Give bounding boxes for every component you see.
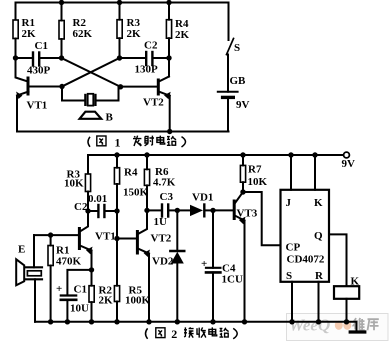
wire VT1 emitter down xyxy=(16,96,18,132)
wire S pin xyxy=(291,282,293,321)
node C3 left xyxy=(144,208,149,213)
svg-text:GB: GB xyxy=(230,75,247,87)
capacitor C3 xyxy=(147,209,161,211)
node VD1 right xyxy=(210,208,215,213)
svg-text:R: R xyxy=(315,270,324,282)
svg-text:430P: 430P xyxy=(27,65,51,77)
transistor VT2 xyxy=(157,80,160,94)
svg-text:R4: R4 xyxy=(124,167,138,179)
svg-text:C1: C1 xyxy=(74,284,87,296)
wire R7 column xyxy=(242,155,244,165)
svg-text:2K: 2K xyxy=(22,28,37,40)
IC CD4072 xyxy=(281,190,330,282)
svg-text:10K: 10K xyxy=(248,176,268,188)
svg-text:62K: 62K xyxy=(73,28,93,40)
wire ground rail fig2 xyxy=(35,321,357,323)
resistor R5 xyxy=(114,286,119,302)
wire node to VT3 base xyxy=(213,209,233,211)
node C2 right fig2 xyxy=(114,208,119,213)
svg-text:C2: C2 xyxy=(144,40,158,52)
node C1 right xyxy=(59,55,64,60)
svg-text:C2: C2 xyxy=(74,201,88,213)
svg-text:S: S xyxy=(234,42,240,54)
node VT2 emitter bottom xyxy=(167,129,172,134)
resistor R2 xyxy=(59,21,64,40)
diode VD1 xyxy=(177,209,190,211)
transistor VT1 fig2 xyxy=(78,229,81,249)
capacitor C4 xyxy=(212,210,214,267)
svg-text:VT2: VT2 xyxy=(151,233,172,245)
node R7 top rail xyxy=(240,152,245,157)
wire left rail fig1 xyxy=(15,3,17,21)
resistor R3 fig2 xyxy=(85,174,90,192)
transistor VT1 xyxy=(27,78,30,94)
wire 9V rail fig2 xyxy=(88,154,344,156)
resistor R6 xyxy=(144,169,149,185)
svg-text:2K: 2K xyxy=(175,29,190,41)
wire VT2 emitter down xyxy=(169,96,171,132)
node VD1 left xyxy=(175,208,180,213)
svg-text:VT1: VT1 xyxy=(95,231,116,243)
svg-text:K: K xyxy=(351,276,360,288)
wire cross coupling diagonal A xyxy=(62,58,121,87)
svg-text:9V: 9V xyxy=(342,158,356,170)
svg-text:VT3: VT3 xyxy=(237,208,258,220)
wire piezo bracket xyxy=(62,87,85,101)
battery GB xyxy=(218,91,238,93)
svg-text:VT2: VT2 xyxy=(143,97,164,109)
node VT1 emitter junction xyxy=(89,267,94,272)
ground rail junction dots xyxy=(48,319,53,324)
svg-text:0.01: 0.01 xyxy=(88,193,107,205)
svg-text:E: E xyxy=(18,244,25,256)
capacitor C1 xyxy=(16,57,33,59)
svg-text:2K: 2K xyxy=(127,28,142,40)
svg-text:4.7K: 4.7K xyxy=(153,177,176,189)
caption fig1 (图 1 发射电路) xyxy=(88,135,186,149)
microphone E xyxy=(16,259,24,285)
svg-text:130P: 130P xyxy=(135,64,159,76)
wire bottom rail fig1 xyxy=(17,131,229,133)
svg-text:CP: CP xyxy=(286,242,301,254)
relay K xyxy=(334,286,359,299)
capacitor C2 fig2 xyxy=(88,210,97,212)
node R4 top rail xyxy=(114,152,119,157)
wire top rail fig1 xyxy=(16,2,229,4)
node R1 top fig2 xyxy=(48,232,53,237)
svg-text:1: 1 xyxy=(115,135,121,149)
svg-text:+: + xyxy=(201,258,207,270)
wire CP connection xyxy=(243,192,281,245)
svg-text:VD2: VD2 xyxy=(152,256,174,268)
node VT1 base xyxy=(59,84,64,89)
svg-text:9V: 9V xyxy=(236,99,250,111)
svg-text:B: B xyxy=(106,112,114,124)
wire left rail down to VT1 collector xyxy=(16,58,28,82)
svg-text:10K: 10K xyxy=(64,178,84,190)
svg-text:100K: 100K xyxy=(125,295,151,307)
svg-text:C3: C3 xyxy=(160,191,174,203)
svg-text:2: 2 xyxy=(171,327,177,341)
node VT3 collector xyxy=(240,189,245,194)
svg-text:K: K xyxy=(314,197,323,209)
terminal 9V xyxy=(344,152,350,158)
svg-text:470K: 470K xyxy=(56,256,82,268)
node R2 top xyxy=(59,0,64,5)
wire to C1 xyxy=(67,270,91,295)
wire mic top xyxy=(33,235,35,267)
node VT2 base fig2 xyxy=(114,236,119,241)
resistor R4 xyxy=(166,20,171,39)
capacitor C1 fig2 xyxy=(61,294,76,296)
caption fig2 (图 2 接收电路) xyxy=(146,327,238,341)
node R3 top xyxy=(117,0,122,5)
wire cross coupling diagonal B xyxy=(62,58,120,87)
svg-text:R7: R7 xyxy=(248,164,262,176)
wire R4 column xyxy=(168,3,170,20)
svg-text:10U: 10U xyxy=(70,303,89,315)
node C2 left xyxy=(117,55,122,60)
node R6 top rail xyxy=(144,152,149,157)
svg-text:2K: 2K xyxy=(99,295,114,307)
watermark weeqoo xyxy=(287,314,389,341)
wire base to VT2 fig2 xyxy=(117,238,137,240)
wire Q output to relay xyxy=(329,234,347,286)
wire J pin xyxy=(290,155,292,190)
wire R3 column fig2 xyxy=(87,155,89,174)
switch S xyxy=(228,3,230,41)
resistor R2 fig2 xyxy=(89,286,94,302)
node C2 right R4 column xyxy=(166,55,171,60)
node C2 left fig2 xyxy=(85,208,90,213)
wire R4 column fig2 xyxy=(116,155,118,168)
wire R pin xyxy=(318,282,320,321)
svg-text:S: S xyxy=(286,270,292,282)
node VT2 base xyxy=(118,84,123,89)
wire R1 bottom to C1 node xyxy=(15,39,17,59)
transistor VT2 fig2 xyxy=(136,232,139,254)
capacitor C2 xyxy=(120,57,146,59)
svg-text:VD1: VD1 xyxy=(192,192,213,204)
svg-text:CD4072: CD4072 xyxy=(287,254,325,266)
node R4 top xyxy=(166,0,171,5)
svg-text:1U: 1U xyxy=(154,216,168,228)
wire R6 column xyxy=(146,155,148,169)
svg-text:VT1: VT1 xyxy=(27,100,48,112)
transistor VT3 xyxy=(233,201,236,219)
resistor R1 fig2 xyxy=(48,246,53,266)
wire R2 column xyxy=(61,3,63,21)
wire mic bottom xyxy=(34,279,36,322)
svg-text:+: + xyxy=(56,283,62,295)
ground symbol xyxy=(356,322,358,331)
wire K pin xyxy=(314,155,316,190)
svg-text:WeeQ: WeeQ xyxy=(289,316,330,335)
diode VD2 xyxy=(176,210,178,251)
svg-text:1CU: 1CU xyxy=(222,274,243,286)
piezo crystal B xyxy=(84,95,86,105)
piezo horn B xyxy=(80,112,102,119)
resistor R7 xyxy=(240,165,245,182)
wire R3 column xyxy=(119,3,121,20)
resistor R1 xyxy=(13,20,18,39)
svg-text:J: J xyxy=(286,197,292,209)
svg-text:150K: 150K xyxy=(123,187,149,199)
svg-text:C1: C1 xyxy=(35,40,48,52)
svg-text:Q: Q xyxy=(314,230,323,242)
node C1 left xyxy=(13,55,18,60)
resistor R4 fig2 xyxy=(114,168,119,184)
resistor R3 xyxy=(117,20,122,39)
